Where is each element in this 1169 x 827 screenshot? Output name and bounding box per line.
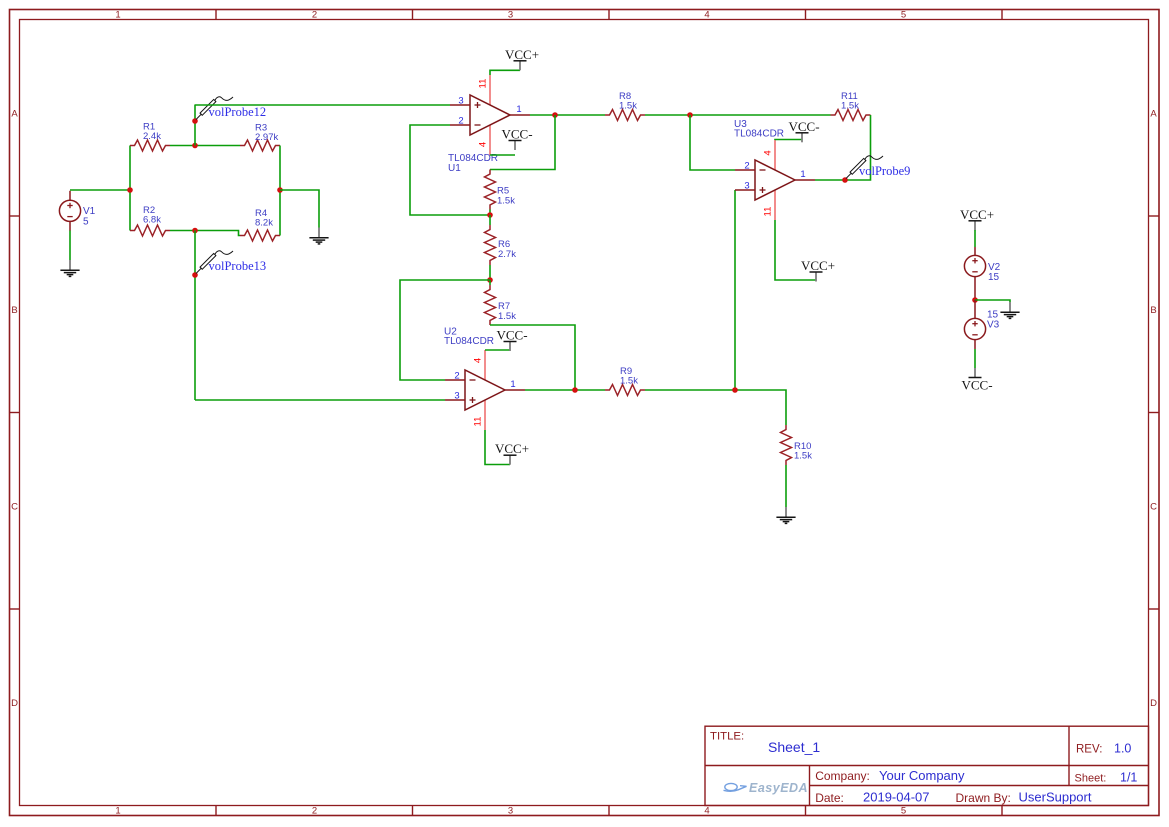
wire probe12 riser [194,105,196,146]
wire R7 to U2 output node [490,325,575,390]
svg-text:3: 3 [458,96,463,107]
wire R6 to node [489,265,491,280]
svg-text:VCC-: VCC- [961,378,992,393]
wire right node to ground [280,190,319,228]
U1 VCC- wiring [490,154,515,156]
voltage source V3 [974,300,976,319]
svg-text:VCC-: VCC- [788,119,819,134]
svg-text:C: C [1150,502,1157,513]
svg-text:V1: V1 [83,206,96,217]
probe volProbe9 icon [846,156,883,179]
svg-text:6.8k: 6.8k [143,215,161,226]
wire R9 to R10 [645,390,786,425]
svg-text:B: B [1150,305,1156,316]
wire U3 output [815,179,845,181]
netflag VCC- (U2) [509,342,511,352]
svg-text:11: 11 [763,207,774,217]
svg-text:C: C [11,502,18,513]
node: V2/V3 midpoint [972,297,978,303]
svg-text:2.97k: 2.97k [255,132,278,143]
svg-text:VCC-: VCC- [501,127,532,142]
netflag VCC- (U3) [801,133,803,143]
svg-text:U1: U1 [448,163,461,174]
resistor R9 [605,385,645,396]
resistor R4 [240,230,280,241]
svg-text:A: A [11,109,18,120]
probe volProbe13 icon [196,251,233,274]
probe volProbe12 icon [196,97,233,120]
svg-text:VCC+: VCC+ [505,47,539,62]
node: R1/R3/probe junction [192,143,198,149]
wire node to R6 [489,215,491,225]
wire R11 right rail down [845,115,871,180]
svg-text:3: 3 [454,391,459,402]
netflag VCC- (V3) [974,368,976,378]
node: R6/R7 junction [487,277,493,283]
svg-text:3: 3 [508,9,513,20]
bridge right rail [279,146,281,236]
bridge left rail [129,146,131,231]
svg-text:V3: V3 [987,320,1000,331]
svg-text:VCC-: VCC- [496,328,527,343]
wire node to R7 [489,280,491,285]
svg-text:1.0: 1.0 [1114,742,1131,756]
svg-text:4: 4 [704,806,709,817]
svg-text:Company:: Company: [815,769,870,783]
op-amp U1 [470,95,510,135]
op-amp U2 pin11 power stub [484,400,486,430]
svg-text:2: 2 [744,161,749,172]
netflag VCC+ (U1) [519,61,521,71]
netflag VCC+ (U2) [509,455,511,465]
wire V1 top to bridge left node [70,189,130,191]
svg-text:1: 1 [115,806,120,817]
svg-text:TL084CDR: TL084CDR [444,336,494,347]
wire U3 pin3 riser [734,190,736,390]
resistor R7 [485,285,496,325]
wire U1 pin2 feedback loop [410,125,490,215]
wire V1 bottom [69,231,71,261]
op-amp U1 pin4 power stub [489,125,491,155]
resistor R2 [130,225,170,236]
U2 output pin 1 stub [505,389,525,391]
svg-text:Sheet_1: Sheet_1 [768,739,820,755]
svg-text:A: A [1150,109,1157,120]
svg-text:volProbe9: volProbe9 [859,164,910,178]
voltage source V1 [69,191,71,201]
U3 pin 2 stub [735,169,755,171]
resistor R11 [831,110,871,121]
U1 pin 2 stub [450,124,470,126]
ground below V1 [69,260,71,270]
svg-text:B: B [11,305,17,316]
node: left rail junction [127,187,133,193]
op-amp U3 pin11 power stub [774,190,776,220]
svg-text:EasyEDA: EasyEDA [749,781,808,795]
svg-text:Date:: Date: [815,791,844,805]
wire R5 to node [489,210,491,216]
svg-text:Sheet:: Sheet: [1075,773,1107,785]
wire to U2 pin3 [195,399,445,401]
svg-text:1: 1 [800,169,805,180]
wire probe13 riser down to U2 pin3 [194,231,196,401]
svg-text:VCC+: VCC+ [960,207,994,222]
svg-text:2019-04-07: 2019-04-07 [863,790,930,805]
wire U1 output row [530,114,605,116]
svg-text:1.5k: 1.5k [841,101,859,112]
U1 output pin 1 stub [510,114,530,116]
wire feedback from output [490,115,555,170]
resistor R10 [781,425,792,465]
svg-text:1.5k: 1.5k [794,451,812,462]
svg-text:4: 4 [478,142,489,147]
svg-text:VCC+: VCC+ [495,441,529,456]
svg-text:UserSupport: UserSupport [1019,790,1092,805]
wire V3 to VCC- [974,349,976,368]
ground at V2/V3 midpoint [1009,302,1011,312]
wire VCC+ to V2 [974,230,976,247]
svg-text:2: 2 [454,371,459,382]
svg-text:Drawn By:: Drawn By: [956,791,1011,805]
svg-text:3: 3 [744,181,749,192]
svg-text:2.4k: 2.4k [143,131,161,142]
svg-text:TL084CDR: TL084CDR [734,129,784,140]
U3 VCC- wiring [775,139,802,142]
U2 VCC+ wiring [485,430,510,465]
svg-text:D: D [1150,698,1157,709]
svg-text:volProbe12: volProbe12 [209,105,267,119]
svg-text:VCC+: VCC+ [801,258,835,273]
svg-text:11: 11 [473,417,484,427]
U3 output pin 1 stub [795,179,815,181]
node: volProbe12 attach [192,118,198,124]
svg-text:Your Company: Your Company [879,768,965,783]
ground below R10 [785,507,787,517]
svg-text:4: 4 [704,9,709,20]
op-amp U1 pin11 power stub [489,75,491,105]
resistor R5 [485,170,496,210]
svg-text:15: 15 [988,272,1000,283]
wire U2 pin2 loop to R6/R7 node [400,280,490,380]
U1 pin 3 stub [450,104,470,106]
svg-text:2: 2 [312,806,317,817]
wire U2 output row [525,389,605,391]
netflag VCC+ (V2) [974,221,976,231]
op-amp U3 pin4 power stub [774,140,776,170]
voltage source V2 [974,247,976,256]
svg-text:1/1: 1/1 [1120,771,1137,785]
svg-text:1.5k: 1.5k [497,196,515,207]
svg-text:D: D [11,698,18,709]
ground right of bridge [318,228,320,238]
wire R2 to R4 with jog [170,231,240,236]
wire R8 to R11 [645,114,831,116]
resistor R1 [130,140,170,151]
svg-text:5: 5 [901,9,906,20]
EasyEDA logo [724,783,747,791]
svg-text:1.5k: 1.5k [498,311,516,322]
wire midpoint to ground [975,300,1010,302]
svg-text:REV:: REV: [1076,744,1102,756]
wire R1 to R3 [170,145,240,147]
svg-text:volProbe13: volProbe13 [209,259,267,273]
node: volProbe9 attach [842,177,848,183]
netflag VCC- (U1) [514,141,516,151]
svg-text:4: 4 [763,150,774,155]
node: volProbe13 attach [192,272,198,278]
svg-text:5: 5 [901,806,906,817]
svg-text:1: 1 [115,9,120,20]
wire top net to U1 pin3 [195,104,450,106]
svg-text:2: 2 [312,9,317,20]
svg-text:11: 11 [478,79,489,89]
svg-text:1.5k: 1.5k [620,376,638,387]
node: R5/R6 junction [487,212,493,218]
wire U3 pin2 riser [690,115,735,170]
resistor R3 [240,140,280,151]
node: U3 input junction [687,112,693,118]
resistor R6 [485,225,496,265]
netflag VCC+ (U3) [815,272,817,282]
svg-text:8.2k: 8.2k [255,218,273,229]
svg-text:2: 2 [458,116,463,127]
svg-text:1: 1 [516,104,521,115]
U3 VCC+ wiring [775,220,816,280]
node: right rail junction [277,187,283,193]
svg-text:2.7k: 2.7k [498,249,516,260]
U3 pin 3 stub [735,189,755,191]
node: R9/R10/U3pin3 junction [732,387,738,393]
svg-text:3: 3 [508,806,513,817]
node: R2/R4/probe junction [192,228,198,234]
node: U1 output junction [552,112,558,118]
svg-text:1.5k: 1.5k [619,101,637,112]
U2 VCC- wiring [485,349,510,351]
svg-text:TITLE:: TITLE: [710,731,744,743]
op-amp U2 [465,370,505,410]
node: U2 output junction [572,387,578,393]
U2 pin 3 stub [445,399,465,401]
U1 VCC+ wiring [490,70,520,75]
wire R10 to ground [785,465,787,507]
op-amp U2 pin4 power stub [484,350,486,380]
resistor R8 [605,110,645,121]
title block [705,726,1149,805]
svg-text:4: 4 [473,358,484,363]
op-amp U3 [755,160,795,200]
U2 pin 2 stub [445,379,465,381]
svg-text:5: 5 [83,217,89,228]
svg-text:1: 1 [510,379,515,390]
